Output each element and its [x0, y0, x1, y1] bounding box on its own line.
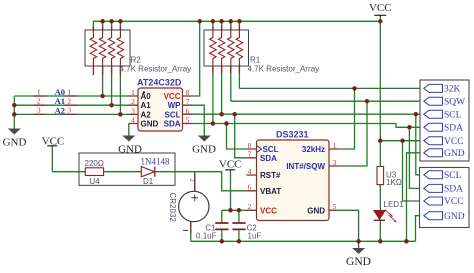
wire U1 GND pin down: [128, 124, 130, 136]
pin stubs U2 left: [246, 149, 256, 210]
svg-text:GND: GND: [444, 212, 465, 222]
node A1 pin numbers: [37, 97, 72, 106]
svg-text:R2: R2: [131, 56, 142, 65]
svg-text:1: 1: [37, 87, 41, 96]
pin stub battery plus: [194, 174, 196, 192]
svg-text:2: 2: [37, 97, 41, 106]
svg-text:7: 7: [248, 150, 252, 159]
label D1 value 1N4148: [141, 157, 170, 167]
svg-text:SDA: SDA: [260, 154, 277, 163]
pin stubs R2: [93, 26, 120, 76]
wire VCC left stem: [51, 146, 53, 172]
svg-text:D1: D1: [143, 177, 154, 186]
net label A1: [55, 96, 65, 106]
svg-text:6: 6: [186, 106, 190, 115]
svg-text:WP: WP: [168, 101, 182, 110]
svg-text:A1: A1: [141, 101, 152, 110]
wire U2 32kHz to 32K line: [339, 88, 354, 149]
svg-text:3: 3: [67, 106, 71, 115]
svg-text:VCC: VCC: [444, 137, 464, 147]
U2 pin numbers left 8 7 4 6 2: [248, 141, 252, 211]
svg-text:6: 6: [248, 183, 252, 192]
svg-text:LED1: LED1: [384, 200, 405, 209]
label battery CR2032: [168, 193, 177, 223]
wire U2 INT/SQW to SQW line: [339, 101, 367, 166]
wire R2 pin tops: [103, 21, 121, 30]
svg-text:SQW: SQW: [444, 97, 465, 107]
svg-text:GND: GND: [141, 120, 159, 129]
pin stubs U2 right: [329, 149, 339, 210]
svg-text:4: 4: [248, 167, 252, 176]
wire R1 pin1 to SDA: [212, 65, 214, 124]
svg-text:VCC: VCC: [260, 206, 277, 215]
svg-text:VBAT: VBAT: [260, 187, 281, 196]
svg-text:32kHz: 32kHz: [302, 145, 325, 154]
pin stubs A0 header: [34, 95, 77, 97]
wire A0: [14, 95, 129, 97]
svg-text:R1: R1: [250, 56, 261, 65]
wire U2 VCC row with caps: [222, 209, 247, 211]
svg-text:SDA: SDA: [444, 124, 463, 134]
svg-text:INT#/SQW: INT#/SQW: [286, 162, 325, 171]
svg-text:4.7K Resistor_Array: 4.7K Resistor_Array: [248, 65, 320, 74]
LED1: [374, 209, 397, 222]
resistor U3 1K: [377, 167, 384, 185]
svg-text:2: 2: [67, 97, 71, 106]
node A2 pin numbers: [37, 106, 72, 115]
wire SCL line: [193, 113, 424, 115]
svg-text:32K: 32K: [444, 85, 461, 95]
wire SCL drop to P2: [416, 114, 424, 175]
svg-text:GND: GND: [3, 136, 27, 148]
svg-text:8: 8: [186, 88, 190, 97]
junction dots VCC cap row: [228, 208, 241, 213]
wire C1 links: [221, 210, 223, 241]
svg-text:A2: A2: [141, 110, 152, 119]
svg-text:GND: GND: [118, 143, 142, 155]
svg-text:VCC: VCC: [164, 92, 181, 101]
svg-text:1: 1: [67, 87, 71, 96]
ground symbol WP: [192, 136, 216, 156]
svg-text:SCL: SCL: [165, 110, 181, 119]
svg-text:SDA: SDA: [164, 120, 181, 129]
wire R2 pin2 to A0: [102, 66, 104, 96]
svg-text:1: 1: [131, 88, 135, 97]
U1 pin names left: [141, 92, 159, 129]
svg-text:1N4148: 1N4148: [141, 157, 170, 167]
U1 pin numbers right 8 7 6 5: [186, 88, 190, 125]
U2 pin numbers right 1 3 5: [333, 141, 337, 211]
svg-text:U4: U4: [90, 177, 101, 186]
VCC symbol left: [42, 135, 65, 147]
svg-text:SCL: SCL: [444, 171, 462, 181]
svg-text:GND: GND: [444, 149, 465, 159]
connector P2 box: [420, 168, 470, 228]
svg-text:2: 2: [131, 97, 135, 106]
connector P1 box: [420, 80, 469, 161]
wire R2 pin3 to A1: [111, 66, 113, 105]
pin stubs U1 right: [183, 96, 193, 124]
svg-text:SDA: SDA: [444, 185, 463, 195]
pin stubs R1: [213, 26, 240, 74]
svg-text:VCC: VCC: [369, 2, 392, 14]
node A0 pin numbers: [37, 87, 72, 96]
U2 pin names left: [260, 145, 281, 215]
module box U4 D1: [79, 153, 175, 185]
wire VCC vertical to U3: [379, 15, 381, 166]
diode D1 1N4148: [141, 167, 155, 177]
svg-text:0.1uF: 0.1uF: [196, 231, 217, 240]
label U2 title DS3231: [276, 130, 309, 140]
svg-text:SCL: SCL: [444, 110, 462, 120]
wire VCC row to connector: [380, 140, 423, 142]
wire R1 pin4 to 32K line: [238, 65, 240, 89]
junction dots A nets: [12, 94, 123, 117]
wire GND row connectors: [407, 153, 424, 242]
capacitor C1: [215, 223, 228, 229]
svg-text:A2: A2: [55, 105, 65, 115]
EEPROM U1 AT24C32D: [138, 88, 183, 131]
svg-text:DS3231: DS3231: [276, 130, 309, 140]
junction dots VCC row: [378, 138, 405, 143]
wire VCC drop to P2: [403, 141, 424, 201]
svg-text:2: 2: [189, 178, 198, 182]
battery G1 CR2032: [179, 191, 209, 230]
wire A1: [14, 104, 129, 106]
wire battery minus to rail: [190, 221, 192, 241]
wire ground symbol stem bottom: [358, 241, 360, 248]
svg-text:4: 4: [131, 115, 135, 124]
label U1 title AT24C32D: [137, 78, 182, 88]
junction dot 32K net: [352, 86, 357, 91]
resistor U4 220 ohm: [85, 168, 103, 176]
connector P2 labels: [444, 171, 465, 222]
svg-text:7: 7: [186, 97, 190, 106]
svg-text:1KΩ: 1KΩ: [386, 178, 402, 187]
wire rail to P2 GND: [416, 216, 424, 242]
label C1: [196, 224, 217, 241]
wire U4 D1 row to battery and VBAT: [52, 172, 246, 191]
svg-text:VCC: VCC: [444, 197, 464, 207]
label U4: [90, 177, 101, 186]
wire SQW line: [231, 100, 424, 102]
wire R2 pin4 to A2: [119, 66, 121, 114]
wire U2 GND to rail: [336, 210, 359, 241]
svg-text:VCC: VCC: [219, 158, 242, 170]
wire VCC top rail: [93, 21, 380, 30]
svg-text:1uF: 1uF: [248, 231, 262, 240]
wire U3 to LED1: [379, 185, 381, 211]
wire SDA line to U2 pin8: [227, 124, 247, 150]
svg-text:3: 3: [131, 106, 135, 115]
U2 pin names right: [286, 145, 325, 215]
label C2: [247, 224, 262, 241]
wire R1 pin2 to SCL: [221, 65, 223, 115]
pin stub battery minus: [190, 221, 192, 233]
wire SDA drop to P2: [409, 127, 423, 188]
svg-text:2: 2: [248, 202, 252, 211]
U1 pin numbers left 1 2 3 4: [131, 88, 135, 125]
junction dots SCL net: [219, 112, 418, 117]
capacitor C2: [232, 223, 245, 229]
wire ground rail: [191, 240, 416, 242]
svg-text:220Ω: 220Ω: [85, 159, 104, 168]
wire U1 VCC to rail: [193, 21, 200, 96]
battery pin number 2: [189, 178, 198, 182]
RTC U2 DS3231: [257, 140, 330, 221]
wire LED1 to ground rail: [379, 220, 381, 242]
svg-text:CR2032: CR2032: [168, 193, 177, 223]
resistor array R2: [85, 30, 130, 66]
label U3: [386, 171, 402, 187]
svg-text:AT24C32D: AT24C32D: [137, 78, 182, 88]
svg-text:5: 5: [333, 202, 337, 211]
wire R1 pin tops: [213, 21, 240, 30]
connector P2 pin arrows: [424, 171, 443, 220]
net label A0: [55, 87, 65, 97]
label U4 value 220 ohm: [85, 159, 104, 168]
pin stubs A1 header: [34, 104, 77, 106]
wire A2: [14, 113, 129, 115]
junction dots ground rail: [220, 239, 409, 244]
net label A2: [55, 105, 65, 115]
svg-text:5: 5: [186, 115, 190, 124]
svg-text:8: 8: [248, 141, 252, 150]
svg-text:SCL: SCL: [263, 145, 279, 154]
junction dots SDA net: [211, 121, 412, 129]
svg-text:RST#: RST#: [260, 171, 281, 180]
svg-text:4.7K Resistor_Array: 4.7K Resistor_Array: [120, 65, 192, 74]
junction dot SQW net: [365, 99, 370, 104]
pin stubs A2 header: [34, 113, 77, 115]
svg-text:3: 3: [333, 158, 337, 167]
wire 32K line: [239, 87, 423, 89]
svg-text:1: 1: [333, 141, 337, 150]
U1 pin names right: [164, 92, 182, 129]
ground symbol bottom: [346, 248, 371, 268]
wire U1 WP to ground: [193, 105, 205, 135]
wire SDA line: [193, 124, 424, 128]
wire R1 pin3 to SQW line: [230, 65, 232, 102]
VCC symbol top: [369, 2, 392, 15]
svg-text:3: 3: [37, 106, 41, 115]
resistor array R1: [204, 30, 249, 66]
label LED1: [384, 200, 405, 209]
wire C2 links: [238, 210, 240, 241]
connector P1 labels: [444, 85, 465, 159]
wire SCL line to U2 pin7: [235, 114, 247, 158]
wire left ground bus: [13, 96, 15, 129]
VCC symbol mid: [219, 158, 242, 170]
label D1: [143, 177, 154, 186]
junction dots top rail: [100, 19, 382, 24]
svg-text:A0: A0: [141, 92, 152, 101]
label R1: [248, 56, 320, 74]
wire VCC mid stem: [230, 170, 232, 210]
ground symbol U1 GND: [118, 136, 142, 156]
label R2: [120, 56, 192, 74]
svg-text:GND: GND: [346, 256, 371, 268]
svg-text:GND: GND: [307, 206, 325, 215]
wire battery plus up: [194, 172, 196, 192]
connector P1 pin arrows: [424, 84, 443, 156]
svg-text:GND: GND: [192, 143, 216, 155]
ground symbol left: [3, 129, 27, 149]
pin stubs U1 left: [129, 96, 139, 124]
